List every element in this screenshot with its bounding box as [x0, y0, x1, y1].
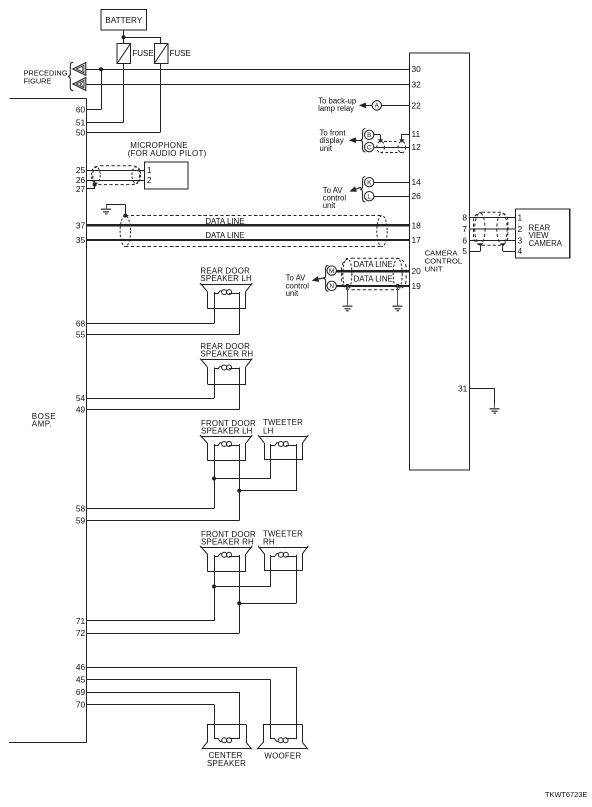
junction battery feed [122, 35, 126, 39]
connector circle L [365, 192, 374, 201]
svg-text:8: 8 [462, 212, 467, 222]
svg-text:45: 45 [76, 675, 86, 685]
shield tap triangle 11 [399, 139, 404, 142]
svg-text:26: 26 [412, 191, 422, 201]
svg-text:FUSE: FUSE [170, 49, 191, 58]
svg-text:DATA LINE: DATA LINE [354, 260, 393, 269]
wire shield to ground [106, 205, 125, 216]
fuse F2 [154, 43, 191, 63]
wire pin 11 [402, 134, 410, 140]
svg-text:37: 37 [76, 220, 86, 230]
svg-text:SPEAKER: SPEAKER [207, 759, 246, 768]
wire row 51 [86, 122, 123, 124]
front door speaker RH label [201, 530, 256, 547]
wire 46 [86, 667, 296, 739]
svg-text:72: 72 [76, 628, 86, 638]
wire front LH plus [86, 444, 270, 508]
to front display unit label [320, 128, 347, 153]
wire row 60 branch [101, 69, 103, 109]
junction J row [99, 67, 103, 71]
preceding figure label [24, 69, 68, 86]
data line label 4 [354, 275, 393, 284]
svg-text:unit: unit [286, 289, 299, 298]
wire 14 [374, 182, 410, 184]
svg-text:27: 27 [76, 184, 86, 194]
connector circle B [365, 130, 374, 139]
svg-text:FIGURE: FIGURE [24, 76, 52, 85]
wire 8 to camera pin 1 [470, 217, 516, 219]
shield tap triangle 5 [478, 243, 483, 246]
svg-text:BATTERY: BATTERY [105, 16, 143, 25]
junction data shield [123, 214, 127, 218]
junction front RH plus [212, 585, 216, 589]
svg-text:35: 35 [76, 235, 86, 245]
wire fuse F1 to row 51 [123, 63, 125, 122]
to av control unit label MN [286, 273, 310, 298]
rear view camera label [529, 224, 563, 248]
shield tap triangle 4 [500, 243, 505, 246]
wire battery to fuses [124, 30, 161, 43]
svg-text:20: 20 [412, 266, 422, 276]
svg-text:18: 18 [412, 220, 422, 230]
wire 5 shield tap [470, 246, 481, 251]
camera shield [474, 212, 508, 245]
svg-text:3: 3 [518, 236, 523, 246]
svg-text:50: 50 [76, 128, 86, 138]
svg-text:CAMERA: CAMERA [529, 239, 563, 248]
svg-text:68: 68 [76, 319, 86, 329]
junction mic shield [93, 183, 97, 187]
center speaker label [207, 751, 246, 768]
wire 22 [382, 105, 410, 107]
svg-text:54: 54 [76, 393, 86, 403]
svg-text:unit: unit [323, 201, 336, 210]
svg-text:71: 71 [76, 616, 86, 626]
svg-text:5: 5 [462, 246, 467, 256]
svg-text:B: B [367, 132, 371, 139]
svg-text:46: 46 [76, 662, 86, 672]
connector circle A [372, 101, 381, 110]
svg-text:RH: RH [263, 538, 275, 547]
woofer label [264, 751, 301, 760]
wire row 60 [86, 109, 101, 111]
brace M N [323, 265, 328, 291]
svg-text:22: 22 [412, 100, 422, 110]
svg-text:L: L [367, 194, 371, 201]
ground MN right [393, 302, 403, 311]
wire 6 to camera pin 3 [470, 240, 516, 242]
wire 69 [86, 692, 239, 739]
svg-text:19: 19 [412, 281, 422, 291]
arrow to front display unit [349, 137, 361, 143]
center speaker [202, 724, 252, 749]
svg-text:TKWT6723E: TKWT6723E [545, 790, 587, 799]
svg-text:M: M [329, 268, 334, 275]
wire N to pin 19 data line [337, 285, 410, 287]
svg-text:FUSE: FUSE [132, 49, 153, 58]
data line label 3 [354, 260, 393, 269]
svg-text:K: K [80, 83, 84, 89]
svg-text:60: 60 [76, 104, 86, 114]
front door speaker LH label [201, 419, 256, 436]
wire K to pin 32 [86, 84, 410, 86]
camera control unit box [410, 53, 470, 470]
to av control unit label KL [323, 186, 347, 210]
wire shield ground right [397, 286, 399, 302]
wire M to pin 20 data line [337, 270, 410, 272]
rear door speaker LH label [200, 267, 252, 284]
fuse F1 [117, 43, 154, 63]
wire 27 shield drain [86, 185, 94, 189]
svg-text:70: 70 [76, 700, 86, 710]
wire row 50 [86, 132, 160, 134]
arrow to av control unit MN [312, 276, 325, 282]
wire 25 to mic pin 1 [86, 170, 144, 172]
svg-text:51: 51 [76, 117, 86, 127]
brace B C [360, 129, 365, 152]
wire 68 [86, 292, 214, 323]
connector circle N [327, 281, 336, 290]
svg-text:unit: unit [320, 144, 333, 153]
data line label 2 [205, 231, 244, 240]
connector circle M [327, 266, 336, 275]
wire front RH plus [86, 555, 270, 621]
data line label 1 [205, 217, 244, 226]
wire B to shield [374, 135, 381, 140]
svg-text:lamp relay: lamp relay [318, 104, 354, 113]
bose amp pin numbers [76, 104, 86, 709]
svg-text:UNIT: UNIT [425, 265, 443, 274]
wire fuse F2 to row 50 [160, 63, 162, 132]
B C shield [377, 141, 406, 153]
shield tap triangle B [378, 139, 383, 142]
mic shield [91, 166, 140, 185]
wire C to pin 12 [374, 147, 410, 149]
tweeter LH label [263, 418, 303, 435]
svg-text:1: 1 [147, 166, 152, 175]
svg-text:DATA LINE: DATA LINE [205, 231, 244, 240]
svg-text:4: 4 [518, 246, 523, 256]
rear door speaker LH [200, 283, 252, 309]
microphone box [144, 162, 188, 189]
wire pin 31 [458, 383, 495, 404]
front door speaker LH [200, 435, 252, 461]
wire 54 [86, 368, 214, 399]
ground data line shield [101, 205, 111, 214]
svg-text:J: J [80, 68, 83, 74]
svg-text:7: 7 [462, 224, 467, 234]
wire 26 to mic pin 2 [86, 180, 144, 182]
wire 26 to pin [374, 196, 410, 198]
svg-text:55: 55 [76, 330, 86, 340]
camera control unit left pin numbers [412, 64, 422, 291]
wire front RH minus [86, 555, 296, 634]
ground pin 31 [490, 404, 500, 413]
bose amp label [32, 412, 56, 429]
brace K L [360, 177, 365, 202]
svg-text:6: 6 [462, 236, 467, 246]
wire 45 [86, 680, 270, 740]
to back-up lamp relay label [318, 97, 357, 114]
svg-text:WOOFER: WOOFER [264, 751, 301, 760]
ground MN left [342, 302, 352, 311]
svg-text:SPEAKER RH: SPEAKER RH [201, 538, 254, 547]
wire J to pin 30 [86, 69, 410, 71]
wire 49 [86, 368, 239, 410]
arrow to av control unit KL [349, 186, 361, 191]
wire camera pin 4 shield tap [503, 246, 516, 251]
rear view camera pin numbers [518, 212, 523, 256]
svg-text:31: 31 [458, 383, 468, 393]
tweeter RH [258, 546, 308, 571]
brace preceding figure [68, 62, 73, 91]
wire 37 to pin 18 data line [86, 224, 409, 226]
svg-text:12: 12 [412, 142, 422, 152]
svg-text:SPEAKER LH: SPEAKER LH [200, 274, 252, 283]
tweeter RH label [263, 529, 303, 546]
figure id [545, 790, 587, 799]
camera control unit label [425, 248, 463, 273]
svg-text:32: 32 [412, 79, 422, 89]
woofer [257, 724, 308, 749]
svg-text:58: 58 [76, 504, 86, 514]
svg-text:LH: LH [263, 426, 274, 435]
data line shield [120, 216, 387, 247]
junction front LH plus [212, 477, 216, 481]
svg-text:11: 11 [412, 129, 421, 139]
front door speaker RH [200, 546, 252, 572]
svg-text:59: 59 [76, 515, 86, 525]
svg-text:17: 17 [412, 235, 422, 245]
battery [101, 10, 146, 31]
wire 70 [86, 705, 214, 740]
svg-text:2: 2 [518, 224, 523, 234]
rear door speaker RH label [200, 342, 253, 359]
junction front LH minus [237, 489, 241, 493]
svg-text:49: 49 [76, 405, 86, 415]
svg-text:(FOR AUDIO PILOT): (FOR AUDIO PILOT) [128, 149, 207, 158]
svg-text:SPEAKER RH: SPEAKER RH [200, 350, 253, 359]
svg-text:SPEAKER LH: SPEAKER LH [201, 426, 253, 435]
svg-text:1: 1 [518, 212, 523, 222]
connector circle K [365, 178, 374, 187]
svg-text:C: C [367, 144, 372, 151]
wire 35 to pin 17 data line [86, 239, 409, 241]
svg-text:30: 30 [412, 64, 422, 74]
svg-text:DATA LINE: DATA LINE [354, 275, 393, 284]
connector circle C [365, 142, 374, 151]
camera control unit right pin numbers [462, 212, 467, 256]
svg-text:69: 69 [76, 687, 86, 697]
svg-text:25: 25 [76, 165, 86, 175]
MN shield [342, 258, 407, 290]
bose amp box [9, 99, 86, 743]
svg-text:K: K [367, 180, 372, 187]
wire 55 [86, 292, 239, 334]
svg-text:AMP.: AMP. [32, 420, 53, 429]
rear door speaker RH [200, 358, 252, 384]
junction MN shield right [396, 284, 400, 288]
rear view camera box [516, 209, 570, 258]
svg-text:14: 14 [412, 177, 422, 187]
wire shield ground left [347, 286, 349, 302]
junction front RH minus [237, 601, 241, 605]
connector J [73, 63, 86, 76]
svg-text:N: N [329, 283, 334, 290]
microphone label [128, 141, 207, 158]
junction MN shield left [345, 284, 349, 288]
wire front LH minus [86, 444, 296, 520]
connector K [73, 78, 86, 91]
tweeter LH [258, 435, 308, 460]
wire 7 to camera pin 2 [470, 228, 516, 230]
svg-text:A: A [375, 103, 380, 110]
svg-text:2: 2 [147, 176, 152, 185]
arrow to back-up lamp relay [359, 103, 372, 109]
